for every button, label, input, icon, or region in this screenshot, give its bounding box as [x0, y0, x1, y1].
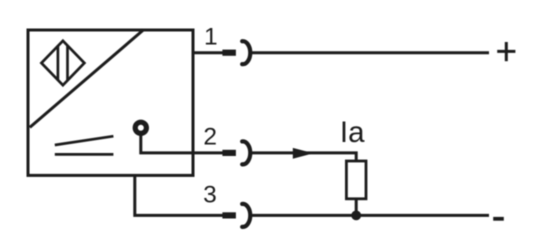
svg-text:2: 2 — [203, 123, 217, 150]
wire from circle down — [141, 135, 193, 153]
adjustment slanted line — [55, 136, 114, 145]
resistor load Ia — [346, 161, 366, 199]
plus terminal label — [497, 50, 515, 53]
resistor bottom lead — [355, 199, 358, 216]
svg-text:1: 1 — [204, 24, 218, 51]
junction dot — [351, 211, 361, 221]
wire pin2 lead — [193, 151, 223, 154]
svg-text:Ia: Ia — [340, 116, 365, 149]
minus terminal label — [493, 217, 504, 221]
connector pin 1 plug rectangle — [222, 50, 236, 56]
svg-text:3: 3 — [203, 181, 217, 208]
wire pin1 to plus — [251, 51, 490, 54]
connector socket arc 3 — [242, 204, 250, 227]
wire pin3 to minus — [251, 214, 490, 217]
connector socket arc 1 — [242, 41, 250, 64]
inductive sensor diamond symbol — [41, 41, 84, 85]
adjustment horizontal line — [55, 153, 114, 156]
output indicator circle — [135, 122, 146, 133]
connector pin 3 plug rectangle — [222, 212, 236, 218]
connector socket arc 2 — [242, 141, 250, 164]
diagonal divider line — [30, 30, 144, 127]
diamond inner vertical line left — [57, 46, 60, 80]
wire box bottom down to pin3 — [135, 175, 223, 215]
sensor body box — [28, 30, 193, 175]
current arrow on wire 2 — [293, 148, 314, 159]
wire pin2 to load corner — [251, 153, 357, 161]
diamond inner vertical line right — [66, 46, 69, 81]
connector pin 2 plug rectangle — [222, 150, 236, 156]
wire pin1 lead — [193, 51, 223, 54]
